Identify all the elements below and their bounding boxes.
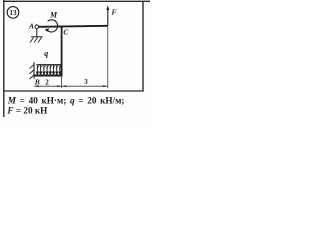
border frame left rule [3,0,5,117]
border frame right rule [142,1,144,92]
variant number 13 badge [7,7,19,19]
force F arrow [106,5,109,25]
svg-text:q: q [44,49,48,58]
dimension line [34,85,108,87]
svg-text:2: 2 [45,78,49,86]
extension line under member C [61,76,63,88]
bottom beam at B [34,75,63,77]
moment M arc [45,20,58,32]
svg-text:3: 3 [84,78,88,86]
border frame top rule [3,0,150,2]
wall support at B [30,62,35,79]
border frame bottom rule [3,90,143,92]
svg-text:F = 20 кН: F = 20 кН [6,105,47,115]
distributed load q band [36,65,62,69]
extension line under beam end [107,27,109,89]
svg-text:B: B [34,78,40,87]
svg-text:A: A [28,22,34,31]
svg-text:M = 40 кН·м; q = 20 кН/м;: M = 40 кН·м; q = 20 кН/м; [7,96,125,106]
pin support at A [30,25,43,43]
svg-text:M: M [49,10,58,19]
top beam A-C-end [39,26,108,27]
distributed load q arrows [36,65,61,74]
svg-text:F: F [112,8,117,17]
svg-text:13: 13 [9,9,17,17]
vertical member C-B beam corner [61,26,63,76]
